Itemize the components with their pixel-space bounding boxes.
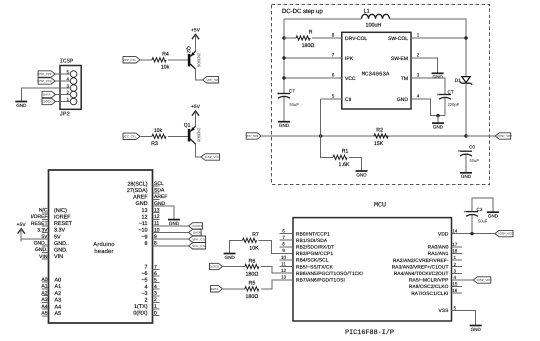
svg-text:RB4/SCK/SCL: RB4/SCK/SCL — [296, 258, 329, 264]
wire JP2 pin 4 — [55, 80, 70, 82]
wire R7 to ground — [230, 240, 243, 250]
svg-text:+: + — [464, 209, 467, 214]
junction VDD/C3 — [470, 232, 473, 235]
svg-text:220pF: 220pF — [448, 102, 460, 107]
svg-text:50uF: 50uF — [290, 102, 300, 107]
flag DATA — [211, 286, 223, 292]
wire U1 pin 7 — [284, 57, 342, 59]
ground C0 — [460, 169, 472, 179]
flag DATA — [42, 91, 56, 97]
ground R7 — [224, 250, 236, 260]
flag VPP_SW — [245, 133, 261, 139]
svg-text:(N/C): (N/C) — [54, 208, 67, 214]
svg-text:R1: R1 — [342, 149, 349, 155]
svg-text:CLOCK: CLOCK — [209, 265, 219, 269]
svg-text:4: 4 — [145, 284, 148, 290]
svg-text:Arduino: Arduino — [93, 241, 114, 248]
wire flag to R4 — [140, 59, 152, 61]
svg-text:ICSP_VPP: ICSP_VPP — [498, 134, 513, 138]
svg-text:R7: R7 — [252, 232, 259, 238]
svg-text:CT: CT — [448, 89, 454, 94]
svg-text:VPP_SW: VPP_SW — [206, 78, 219, 82]
svg-text:2N3906: 2N3906 — [197, 128, 202, 143]
wire VDD to flag — [452, 233, 496, 235]
ground U1 pin 2 — [432, 70, 444, 80]
transistor Q1 2N3906 — [184, 122, 202, 144]
svg-text:4: 4 — [454, 275, 457, 280]
svg-text:VIN: VIN — [54, 254, 63, 260]
ground CT — [432, 120, 444, 130]
svg-text:ICSP_VPP: ICSP_VPP — [37, 72, 52, 76]
svg-text:D1: D1 — [455, 78, 462, 84]
svg-text:9: 9 — [282, 248, 285, 253]
wire Arduino pin 10 — [153, 232, 189, 234]
svg-text:RB7/AN6/PGD/T1OSI: RB7/AN6/PGD/T1OSI — [296, 278, 345, 284]
svg-text:GND..: GND.. — [54, 241, 69, 247]
svg-text:5: 5 — [332, 94, 335, 99]
wire JP2 pin 1 — [56, 101, 71, 103]
svg-text:2: 2 — [454, 262, 457, 267]
svg-text:1: 1 — [417, 33, 420, 38]
svg-text:1(TX): 1(TX) — [134, 304, 148, 310]
svg-text:C0: C0 — [469, 145, 475, 150]
svg-text:DATA: DATA — [193, 231, 201, 235]
capacitor C3 50uF — [464, 207, 488, 224]
ground C3 — [487, 209, 499, 219]
DC-DC step up boundary box — [272, 5, 490, 185]
svg-text:2N3906: 2N3906 — [197, 53, 202, 68]
svg-text:IPK: IPK — [345, 56, 354, 62]
wire U1 pin 8 stub — [328, 37, 342, 39]
svg-text:DC-DC step up: DC-DC step up — [282, 8, 323, 15]
wire pin 4 to flag — [452, 279, 474, 281]
wire C3 to VDD — [471, 215, 473, 234]
svg-text:10K: 10K — [249, 245, 259, 251]
svg-text:3.3V: 3.3V — [54, 228, 65, 234]
svg-text:CLOCK: CLOCK — [192, 224, 202, 228]
svg-text:AREF: AREF — [133, 195, 148, 201]
svg-text:6: 6 — [282, 228, 285, 233]
flag ICSP_VPP — [495, 133, 512, 139]
resistor R1 — [333, 149, 350, 169]
wire U1 pin 4 — [411, 99, 445, 116]
svg-text:2: 2 — [145, 297, 148, 303]
svg-text:ICSP_VCC: ICSP_VCC — [37, 79, 53, 83]
wire R to U1 pin 8 — [312, 37, 328, 39]
flag ICSP_VCC — [201, 154, 221, 160]
svg-text:RESET: RESET — [54, 221, 73, 227]
svg-text:13: 13 — [281, 275, 287, 280]
ground JP2 — [15, 98, 27, 108]
wire CLOCK flag to R6 — [223, 266, 245, 268]
wire top rail right — [390, 19, 467, 77]
svg-text:1: 1 — [454, 255, 457, 260]
wire JP2 pin 5 — [55, 73, 70, 75]
ground VSS — [470, 322, 482, 332]
svg-text:17: 17 — [452, 242, 458, 247]
svg-text:A3: A3 — [55, 298, 62, 304]
resistor R7 — [243, 232, 260, 251]
flag ICSP_VCC — [495, 230, 514, 236]
wire rail to R — [284, 37, 296, 39]
op-amp/IC U1 MC34063A — [332, 32, 420, 109]
capacitor C7 50uF — [277, 89, 300, 108]
flag ICSP_VCC — [37, 78, 55, 84]
svg-text:A1: A1 — [55, 284, 62, 290]
wire to ground CT — [437, 116, 439, 120]
svg-text:10k: 10k — [154, 128, 163, 134]
svg-text:2: 2 — [417, 53, 420, 58]
svg-text:16: 16 — [452, 288, 458, 293]
svg-text:18: 18 — [452, 249, 458, 254]
svg-text:IOREF: IOREF — [54, 215, 71, 221]
diode D1 zener — [455, 77, 473, 85]
svg-text:~5: ~5 — [141, 278, 147, 284]
inductor L1 100uH — [362, 8, 390, 28]
wire Q2 collector — [196, 69, 203, 80]
junction left rail pin6 row — [282, 76, 285, 79]
wire +5V to Q2 emitter — [195, 47, 197, 52]
svg-text:A4: A4 — [55, 304, 62, 310]
wire D1 to output — [465, 83, 467, 136]
svg-text:+: + — [458, 149, 461, 154]
wire U1 pin 2 to ground — [411, 58, 438, 70]
svg-text:12: 12 — [142, 214, 148, 220]
junction pin 1 / D1 — [464, 36, 467, 39]
resistor R2 — [374, 127, 388, 147]
ground Arduino — [168, 216, 180, 226]
svg-text:R4: R4 — [162, 51, 169, 57]
svg-text:8: 8 — [282, 242, 285, 247]
wire R5 to MCU pin 13 — [261, 280, 293, 289]
wire R4 to Q2 base — [168, 59, 188, 61]
wire CT bottom — [444, 98, 446, 116]
svg-text:header: header — [94, 248, 113, 255]
svg-text:VPP_CTL: VPP_CTL — [123, 58, 137, 62]
flag CLOCK — [42, 98, 56, 104]
svg-text:A2: A2 — [55, 291, 62, 297]
wire R1 to ground — [349, 157, 362, 167]
flag VPP_CTL — [189, 236, 206, 242]
capacitor CT 220pF — [437, 89, 460, 107]
transistor Q2 2N3906 — [185, 46, 202, 69]
ground C7 — [278, 118, 290, 128]
resistor R — [296, 29, 314, 49]
IC PIC16F88-I/P — [280, 218, 463, 337]
ground R1 — [356, 168, 368, 178]
power +5V Q2 — [191, 28, 201, 48]
svg-text:Q2: Q2 — [185, 46, 191, 53]
svg-text:RA0/AN0: RA0/AN0 — [428, 245, 449, 251]
svg-text:~9: ~9 — [141, 234, 147, 240]
svg-text:R6: R6 — [249, 258, 256, 264]
svg-text:12: 12 — [281, 268, 287, 273]
flag ICSP_VPP — [37, 71, 55, 77]
wire U1 pin 5 down — [320, 99, 322, 136]
wire +5V to Q1 emitter — [195, 123, 197, 126]
svg-text:RB2/SDO/RX/DT: RB2/SDO/RX/DT — [296, 245, 334, 251]
svg-text:A0: A0 — [55, 277, 62, 283]
svg-text:C3: C3 — [477, 207, 483, 212]
wire flag to R3 — [140, 135, 152, 137]
svg-text:ICSP: ICSP — [60, 58, 74, 65]
svg-text:14: 14 — [452, 229, 458, 234]
svg-text:~11: ~11 — [139, 221, 148, 227]
svg-text:DATA: DATA — [43, 93, 51, 97]
svg-text:~6: ~6 — [141, 271, 147, 277]
svg-text:7: 7 — [282, 235, 285, 240]
wire JP2 pin 3 to ground — [21, 88, 70, 98]
svg-text:180Ω: 180Ω — [245, 272, 258, 278]
flag DATA — [189, 229, 202, 235]
svg-text:180Ω: 180Ω — [245, 294, 258, 300]
wire R3 to Q1 base — [168, 135, 188, 137]
svg-text:VPP_SW: VPP_SW — [245, 134, 258, 138]
svg-text:GND: GND — [397, 97, 409, 103]
resistor R5 — [245, 281, 259, 300]
svg-text:+: + — [437, 92, 440, 97]
wire to ICSP_VPP flag — [466, 135, 495, 137]
svg-text:SW-COL: SW-COL — [388, 36, 408, 42]
svg-text:~10: ~10 — [138, 228, 147, 234]
svg-text:CII: CII — [345, 97, 351, 103]
svg-text:ICSP_VCC: ICSP_VCC — [498, 232, 514, 236]
svg-text:RA3/AN3/VREF+/C1OUT: RA3/AN3/VREF+/C1OUT — [392, 264, 449, 270]
wire JP2 pin 2 — [56, 94, 71, 96]
svg-text:RA1/AN1: RA1/AN1 — [428, 251, 449, 257]
svg-text:3: 3 — [454, 268, 457, 273]
svg-text:RA6/OSC2/CLKO: RA6/OSC2/CLKO — [409, 284, 449, 290]
connector JP2 ICSP header — [60, 58, 82, 118]
svg-text:TM: TM — [401, 76, 408, 82]
resistor R3 — [151, 128, 166, 147]
svg-text:RA2/AN2/CVREF/VREF-: RA2/AN2/CVREF/VREF- — [393, 258, 449, 264]
svg-text:SW-EM: SW-EM — [391, 56, 408, 62]
svg-text:RA7/OSC1/CLKI: RA7/OSC1/CLKI — [411, 291, 448, 297]
flag ICSP_VPP — [473, 277, 491, 283]
capacitor C0 50uF — [458, 145, 480, 163]
svg-text:ICSP_VCC: ICSP_VCC — [205, 155, 221, 159]
resistor R6 — [245, 258, 259, 277]
svg-text:7: 7 — [145, 265, 148, 271]
svg-text:R5: R5 — [249, 281, 256, 287]
svg-text:15: 15 — [452, 282, 458, 287]
wire U1 pin 1 — [411, 37, 466, 39]
svg-text:4: 4 — [417, 94, 420, 99]
wire C3 to ground — [472, 198, 493, 212]
wire left rail — [283, 19, 285, 94]
wire U1 pin 5 — [321, 98, 342, 100]
svg-text:MCU: MCU — [374, 201, 386, 209]
svg-text:DATA: DATA — [211, 287, 219, 291]
wire R7 to MCU pin 9 — [259, 240, 294, 253]
svg-text:PIC16F88-I/P: PIC16F88-I/P — [345, 329, 394, 337]
svg-text:VCC_CTL: VCC_CTL — [123, 134, 137, 138]
svg-text:RA4/AN4/T0CKI/C2OUT: RA4/AN4/T0CKI/C2OUT — [394, 271, 449, 277]
wire C0 to ground — [465, 155, 467, 170]
svg-text:0(RX): 0(RX) — [133, 311, 147, 317]
wire Q1 collector — [196, 144, 201, 157]
wire top rail left — [284, 18, 362, 20]
svg-text:7: 7 — [332, 53, 335, 58]
svg-text:RA5/~MCLR/VPP: RA5/~MCLR/VPP — [409, 278, 449, 284]
svg-text:100uH: 100uH — [366, 23, 382, 29]
wire output row — [261, 135, 466, 137]
svg-text:8: 8 — [332, 33, 335, 38]
wire C7 to ground — [283, 97, 285, 118]
svg-text:~3: ~3 — [141, 291, 147, 297]
svg-text:8: 8 — [145, 241, 148, 247]
junction left rail pin7 row — [282, 56, 285, 59]
junction CT/pin4 — [436, 114, 439, 117]
svg-text:28(SCL): 28(SCL) — [127, 181, 147, 187]
power +5V Arduino — [17, 222, 27, 242]
svg-text:10: 10 — [281, 255, 287, 260]
svg-text:L1: L1 — [364, 8, 370, 14]
svg-text:MC34063A: MC34063A — [362, 71, 390, 78]
svg-text:C7: C7 — [289, 89, 295, 94]
power +5V Q1 — [191, 104, 201, 124]
svg-text:RB6/AN5/PGC/T1OSO/T1CKI: RB6/AN5/PGC/T1OSO/T1CKI — [296, 271, 363, 277]
svg-text:DRV-COL: DRV-COL — [345, 36, 367, 42]
svg-text:GND.: GND. — [54, 248, 67, 254]
wire +5V to Arduino 5V pin — [21, 229, 48, 239]
svg-text:R3: R3 — [151, 141, 158, 147]
junction pin5/R1 — [319, 134, 322, 137]
svg-text:5V: 5V — [54, 234, 61, 240]
wire Arduino pin 8 — [153, 245, 189, 247]
svg-text:RB3/PGM/CCP1: RB3/PGM/CCP1 — [296, 251, 333, 257]
svg-text:VPP_CTL: VPP_CTL — [192, 237, 206, 241]
svg-text:11: 11 — [281, 261, 286, 266]
svg-text:CLOCK: CLOCK — [42, 100, 52, 104]
svg-text:15K: 15K — [374, 141, 384, 147]
flag VCC_CTL — [189, 243, 207, 249]
wire Arduino GND pin — [153, 206, 175, 216]
svg-text:RB0/INT/CCP1: RB0/INT/CCP1 — [296, 231, 330, 237]
svg-text:A5: A5 — [55, 311, 62, 317]
svg-text:5: 5 — [454, 306, 457, 311]
svg-text:GND: GND — [136, 201, 148, 207]
wire U1 pin 3 to CT — [411, 78, 445, 95]
svg-text:50uF: 50uF — [470, 158, 480, 163]
svg-text:180Ω: 180Ω — [302, 43, 315, 49]
svg-text:Q1: Q1 — [184, 122, 191, 128]
junction left rail pin8 row — [282, 36, 285, 39]
svg-text:ICSP_VPP: ICSP_VPP — [477, 278, 492, 282]
wire Arduino pin 11 — [153, 225, 189, 227]
svg-text:50uF: 50uF — [478, 219, 488, 224]
flag CLOCK — [189, 223, 203, 229]
resistor R4 — [152, 51, 170, 70]
svg-text:10k: 10k — [161, 65, 170, 71]
svg-text:6: 6 — [332, 73, 335, 78]
svg-text:RB5/~SS/TX/CK: RB5/~SS/TX/CK — [296, 264, 334, 270]
wire R6 to MCU pin 12 — [261, 267, 293, 274]
svg-text:13: 13 — [142, 208, 148, 214]
svg-text:27(SDA): 27(SDA) — [127, 188, 148, 194]
wire DATA flag to R5 — [223, 288, 245, 290]
svg-text:JP2: JP2 — [60, 111, 71, 118]
flag CLOCK — [209, 263, 223, 269]
svg-text:VDD: VDD — [438, 231, 449, 237]
junction D1/C0/out — [464, 134, 467, 137]
wire VSS to ground — [452, 310, 476, 322]
svg-text:VCC_CTL: VCC_CTL — [192, 244, 206, 248]
svg-text:3: 3 — [417, 73, 420, 78]
svg-text:+: + — [277, 91, 280, 96]
wire U1 pin 6 — [284, 77, 342, 79]
flag VPP_SW — [203, 77, 219, 83]
svg-text:RB1/SDI/SDA: RB1/SDI/SDA — [296, 238, 328, 244]
wire to R1 — [321, 136, 333, 157]
connector Arduino header — [31, 170, 168, 323]
svg-text:1.6K: 1.6K — [339, 162, 350, 168]
svg-text:R: R — [309, 29, 313, 35]
flag VPP_CTL — [123, 57, 140, 63]
svg-text:R2: R2 — [376, 127, 383, 133]
wire Arduino pin 9 — [153, 238, 189, 240]
flag VCC_CTL — [123, 133, 140, 139]
svg-text:VCC: VCC — [345, 76, 356, 82]
svg-text:VSS: VSS — [439, 308, 449, 314]
